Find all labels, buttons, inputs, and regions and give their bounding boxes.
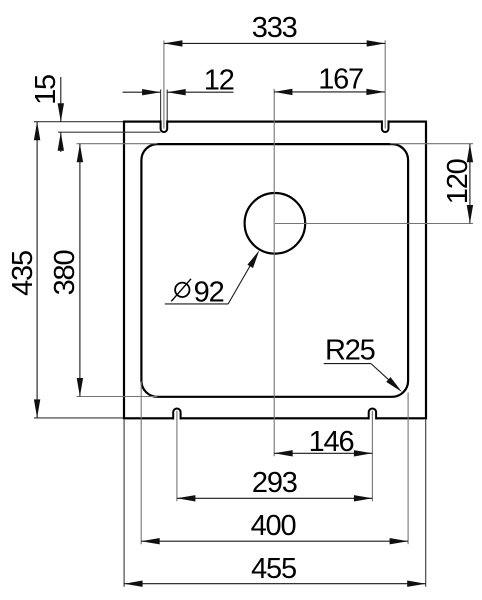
dimension 120 top arrow [467,144,473,163]
dimension 12 left tail [123,91,161,93]
extension line bowl bottom left [77,396,158,398]
centerline top-right slot [384,40,386,128]
centerline bottom-right slot [371,411,373,502]
dimension 333 left arrow [164,40,183,46]
leader D92 diagonal [228,263,252,304]
dimension 435 line [36,122,38,418]
extension line bowl top left [77,143,158,145]
top-right mounting slot [382,120,389,132]
svg-text:333: 333 [252,12,297,44]
leader D92 underline [165,303,228,305]
leader D92 arrow [247,250,259,268]
dimension 146 right arrow [354,450,373,456]
dimension 333 right arrow [367,40,386,46]
sink outer edge rectangle [124,122,426,419]
dimension 380 top arrow [77,144,83,163]
dimension 293 right arrow [354,495,373,501]
diameter symbol circle [175,283,189,297]
dimension 455 line [124,583,426,585]
extension line outer bottom left [34,417,123,419]
dimension 167 right arrow [366,89,385,95]
extension line outer top left [34,121,123,123]
svg-text:12: 12 [204,64,234,96]
bowl inner rounded rectangle R25 [141,144,408,397]
dimension 435 bottom arrow [34,399,40,418]
top-left mounting slot [161,120,168,132]
dimension 455 right arrow [407,581,426,587]
diameter symbol slash [171,279,191,302]
extension line slot left wall [160,90,162,121]
svg-text:380: 380 [49,251,81,296]
extension line bowl left edge down [140,382,142,545]
dimension 12 left arrow [142,89,161,95]
extension line bowl top right [390,143,473,145]
dimension 120 bottom arrow [467,205,473,224]
svg-text:92: 92 [194,276,224,308]
dimension 293 line [177,497,373,499]
dimension 12 right tail [167,91,233,93]
dimension 400 line [141,540,408,542]
dimension 15 upper tail [60,77,62,122]
dimension 293 left arrow [177,495,196,501]
dimension 333 line [164,42,385,44]
dimension 400 right arrow [390,538,409,544]
drain hole circle D92 [245,193,306,254]
dimension 167 left arrow [274,89,293,95]
dimension 380 bottom arrow [77,378,83,397]
extension line slot depth 15 [58,131,161,133]
svg-text:15: 15 [30,75,62,105]
bottom-left mounting slot [173,409,180,420]
leader R25 diagonal [371,364,392,383]
leader R25 arrow [386,377,402,392]
extension line outer left edge down [123,420,125,587]
dimension 400 left arrow [141,538,160,544]
leader R25 underline [324,363,371,365]
dimension 15 lower tail [60,132,62,152]
dimension 455 left arrow [124,581,143,587]
svg-text:167: 167 [318,64,363,96]
horizontal centerline from drain to 120 dim [275,223,473,225]
svg-text:120: 120 [442,159,474,204]
centerline top-left slot [163,40,165,128]
svg-text:146: 146 [309,426,354,458]
svg-text:435: 435 [7,251,39,296]
svg-text:400: 400 [251,510,296,542]
dimension 15 upper arrow [58,103,64,122]
svg-text:293: 293 [252,467,297,499]
dimension 15 lower arrow [58,132,64,151]
svg-text:455: 455 [251,553,296,585]
dimension 120 line [469,144,471,224]
extension line bowl right edge down [407,393,409,545]
main vertical centerline [273,89,275,456]
extension line outer right edge down [425,420,427,587]
dimension 12 right arrow [167,89,186,95]
extension line slot right wall [166,90,168,121]
dimension 380 line [79,144,81,397]
centerline bottom-left slot [176,411,178,502]
dimension 146 left arrow [274,450,293,456]
dimension 167 line [274,91,385,93]
svg-text:R25: R25 [325,335,375,367]
bottom-right mounting slot [369,409,376,420]
dimension 435 top arrow [34,122,40,141]
dimension 146 line [274,452,372,454]
